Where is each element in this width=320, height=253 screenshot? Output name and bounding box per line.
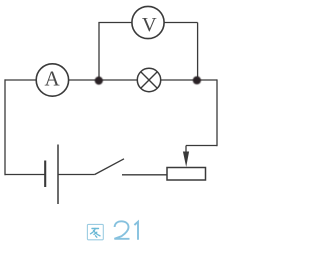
- wire left vertical: [4, 79, 6, 175]
- voltmeter V1 circle: [132, 6, 164, 38]
- svg-text:V: V: [142, 14, 157, 36]
- wire right vertical: [216, 79, 218, 146]
- wire switch contact to rheostat: [122, 174, 167, 176]
- node junction right: [193, 76, 201, 84]
- battery positive plate (long): [57, 145, 59, 205]
- lamp L1 cross stroke 1: [141, 72, 158, 89]
- rheostat slider arrowhead: [183, 152, 189, 168]
- rheostat R (resistor box): [167, 168, 206, 181]
- svg-text:A: A: [45, 67, 61, 91]
- wire rheostat slider corner horizontal: [186, 145, 217, 147]
- wire voltmeter branch right vertical: [197, 23, 199, 78]
- node junction left: [95, 77, 103, 85]
- battery negative plate (short): [44, 161, 46, 188]
- switch S blade (open): [95, 159, 124, 175]
- ammeter A1 circle: [36, 64, 68, 96]
- wire ammeter to lamp through node: [69, 79, 138, 81]
- lamp L1 circle: [137, 68, 160, 91]
- caption hanzi "图": [87, 224, 103, 239]
- wire voltmeter branch top right: [164, 22, 197, 24]
- wire battery to switch pivot: [58, 174, 95, 176]
- caption number 21: [114, 221, 138, 240]
- rheostat slider arrow stem: [185, 146, 187, 154]
- wire lamp to right corner: [161, 79, 217, 81]
- wire main row left segment: [5, 79, 37, 81]
- wire voltmeter branch left vertical: [98, 23, 100, 78]
- lamp L1 cross stroke 2: [141, 72, 158, 89]
- wire bottom left to battery: [5, 174, 46, 176]
- wire voltmeter branch top left: [98, 22, 132, 24]
